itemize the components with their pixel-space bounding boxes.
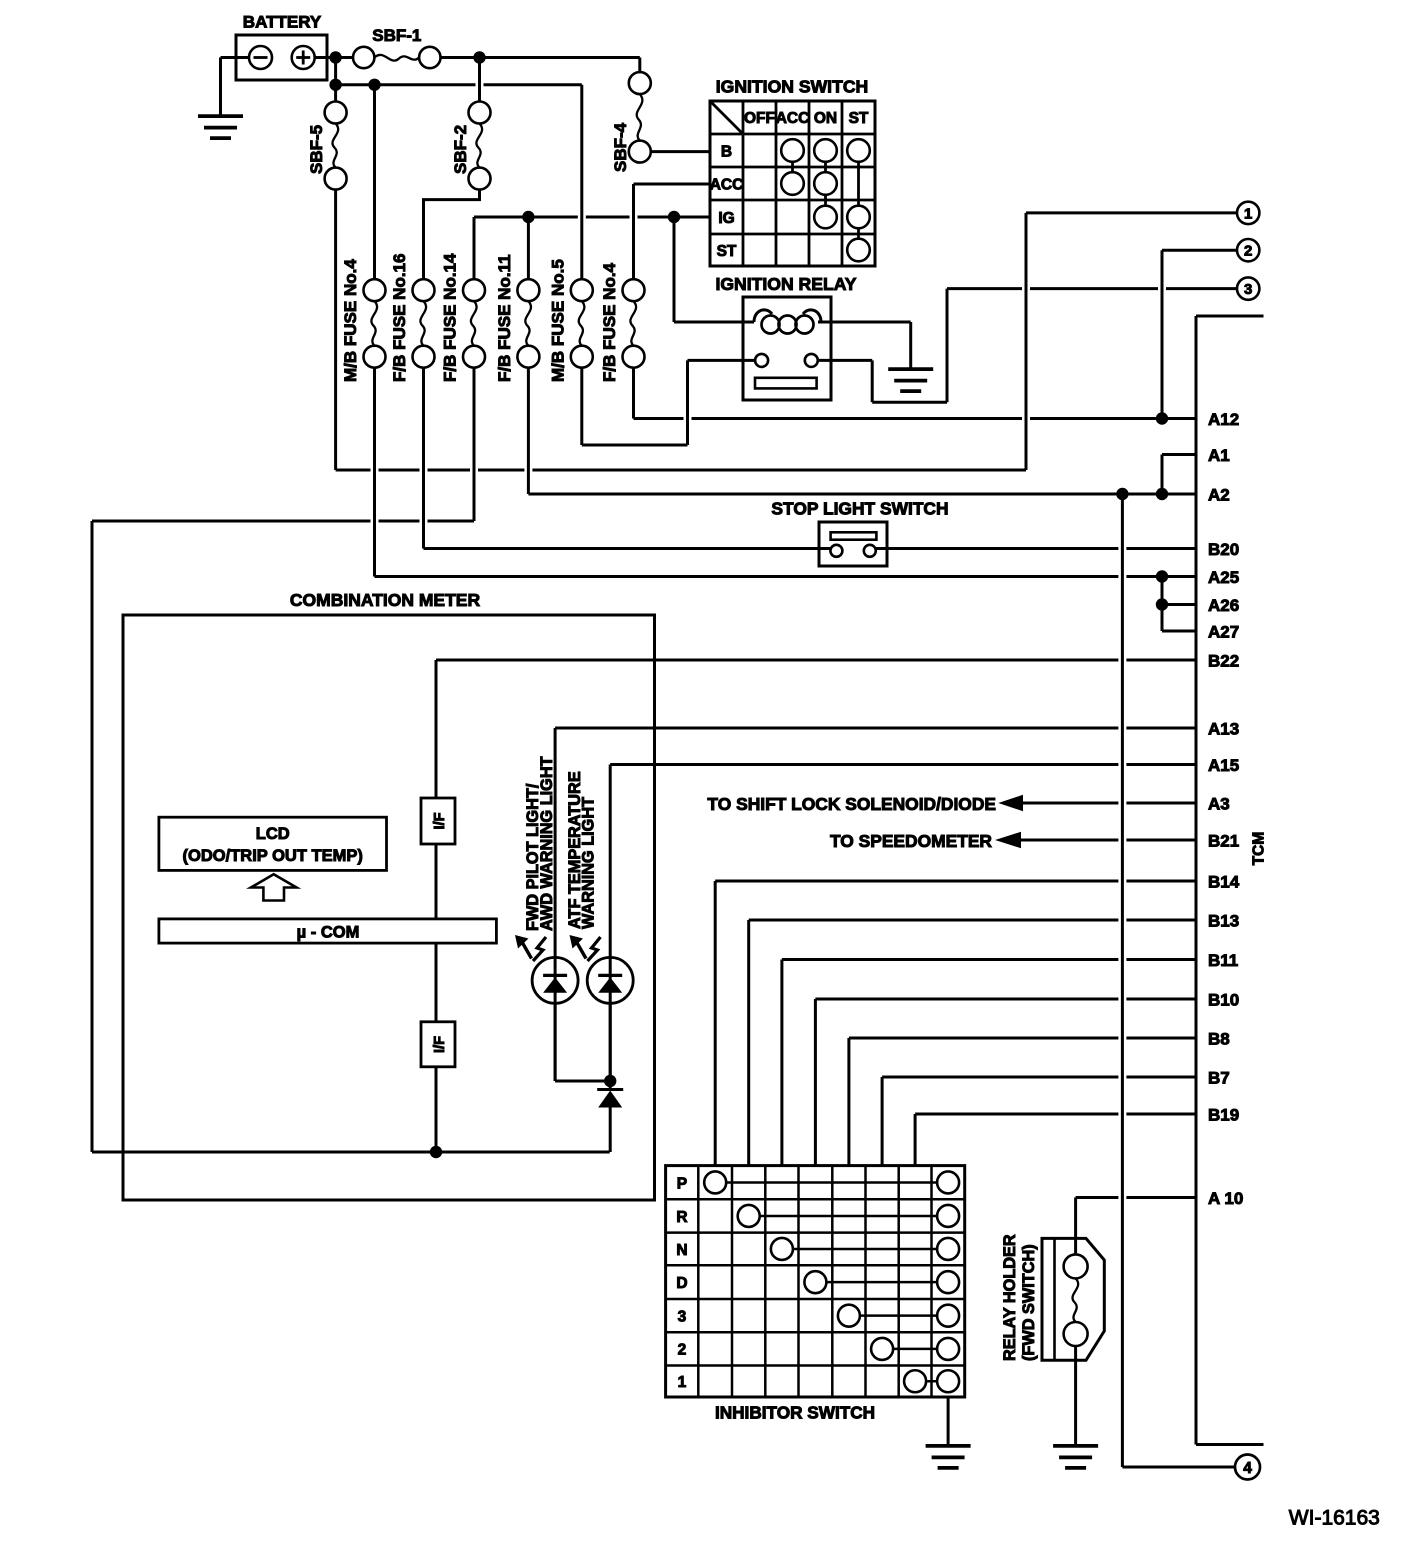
svg-text:B22: B22 bbox=[1208, 651, 1239, 670]
svg-text:A13: A13 bbox=[1208, 719, 1239, 738]
svg-text:RELAY HOLDER: RELAY HOLDER bbox=[1001, 1234, 1019, 1361]
svg-text:1: 1 bbox=[678, 1374, 687, 1391]
svg-text:A2: A2 bbox=[1208, 485, 1230, 504]
svg-text:ACC: ACC bbox=[710, 177, 744, 194]
svg-text:AWD WARNING LIGHT: AWD WARNING LIGHT bbox=[538, 756, 556, 931]
svg-text:M/B FUSE No.5: M/B FUSE No.5 bbox=[548, 259, 567, 382]
svg-text:OFF: OFF bbox=[744, 110, 775, 127]
svg-text:B8: B8 bbox=[1208, 1029, 1230, 1048]
svg-text:SBF-1: SBF-1 bbox=[372, 26, 421, 45]
svg-text:TO SPEEDOMETER: TO SPEEDOMETER bbox=[830, 831, 992, 851]
svg-text:IGNITION RELAY: IGNITION RELAY bbox=[715, 274, 856, 294]
svg-text:IG: IG bbox=[718, 210, 734, 227]
svg-text:A25: A25 bbox=[1208, 568, 1239, 587]
svg-text:D: D bbox=[676, 1275, 687, 1292]
svg-text:A3: A3 bbox=[1208, 794, 1230, 813]
svg-text:I/F: I/F bbox=[432, 812, 448, 829]
svg-text:A 10: A 10 bbox=[1208, 1189, 1243, 1208]
svg-text:COMBINATION METER: COMBINATION METER bbox=[290, 590, 481, 610]
svg-text:B10: B10 bbox=[1208, 990, 1239, 1009]
svg-text:WI-16163: WI-16163 bbox=[1289, 1507, 1380, 1530]
svg-text:A1: A1 bbox=[1208, 446, 1230, 465]
svg-text:A15: A15 bbox=[1208, 756, 1239, 775]
svg-text:F/B FUSE No.4: F/B FUSE No.4 bbox=[600, 262, 619, 382]
svg-text:µ - COM: µ - COM bbox=[297, 924, 360, 942]
svg-text:IGNITION SWITCH: IGNITION SWITCH bbox=[716, 77, 868, 97]
svg-text:ACC: ACC bbox=[776, 110, 810, 127]
svg-text:3: 3 bbox=[678, 1308, 687, 1325]
svg-text:F/B FUSE No.14: F/B FUSE No.14 bbox=[441, 253, 460, 382]
svg-text:1: 1 bbox=[1244, 205, 1252, 222]
svg-text:B21: B21 bbox=[1208, 831, 1239, 850]
svg-text:A27: A27 bbox=[1208, 622, 1239, 641]
svg-text:4: 4 bbox=[1243, 1460, 1252, 1477]
svg-text:2: 2 bbox=[678, 1342, 687, 1359]
svg-text:B19: B19 bbox=[1208, 1105, 1239, 1124]
svg-text:F/B FUSE No.11: F/B FUSE No.11 bbox=[495, 254, 514, 382]
svg-text:SBF-5: SBF-5 bbox=[307, 125, 326, 174]
svg-text:B20: B20 bbox=[1208, 540, 1239, 559]
svg-text:TO SHIFT LOCK SOLENOID/DIODE: TO SHIFT LOCK SOLENOID/DIODE bbox=[707, 794, 996, 814]
svg-text:SBF-4: SBF-4 bbox=[611, 122, 630, 172]
svg-text:B14: B14 bbox=[1208, 872, 1240, 891]
svg-text:P: P bbox=[677, 1175, 687, 1192]
svg-text:TCM: TCM bbox=[1251, 832, 1268, 866]
svg-text:2: 2 bbox=[1244, 243, 1252, 260]
svg-text:F/B FUSE No.16: F/B FUSE No.16 bbox=[390, 254, 409, 382]
svg-text:STOP LIGHT SWITCH: STOP LIGHT SWITCH bbox=[771, 499, 948, 519]
svg-text:WARNING LIGHT: WARNING LIGHT bbox=[580, 797, 598, 929]
svg-text:M/B FUSE No.4: M/B FUSE No.4 bbox=[341, 259, 360, 382]
svg-text:ON: ON bbox=[814, 110, 837, 127]
svg-text:(FWD SWITCH): (FWD SWITCH) bbox=[1020, 1244, 1038, 1361]
svg-text:(ODO/TRIP OUT TEMP): (ODO/TRIP OUT TEMP) bbox=[183, 847, 363, 865]
svg-text:ST: ST bbox=[849, 110, 869, 127]
svg-text:SBF-2: SBF-2 bbox=[451, 125, 470, 174]
svg-text:B: B bbox=[721, 144, 732, 161]
svg-text:A26: A26 bbox=[1208, 596, 1239, 615]
svg-text:3: 3 bbox=[1244, 281, 1252, 298]
svg-text:B7: B7 bbox=[1208, 1068, 1230, 1087]
svg-text:R: R bbox=[676, 1209, 687, 1226]
svg-text:A12: A12 bbox=[1208, 410, 1239, 429]
svg-text:N: N bbox=[676, 1242, 687, 1259]
svg-text:ST: ST bbox=[717, 243, 737, 260]
svg-text:B11: B11 bbox=[1208, 951, 1238, 970]
svg-text:B13: B13 bbox=[1208, 911, 1239, 930]
svg-text:INHIBITOR SWITCH: INHIBITOR SWITCH bbox=[715, 1403, 875, 1423]
svg-text:I/F: I/F bbox=[432, 1036, 448, 1053]
svg-text:BATTERY: BATTERY bbox=[243, 13, 322, 32]
svg-text:LCD: LCD bbox=[256, 825, 290, 843]
